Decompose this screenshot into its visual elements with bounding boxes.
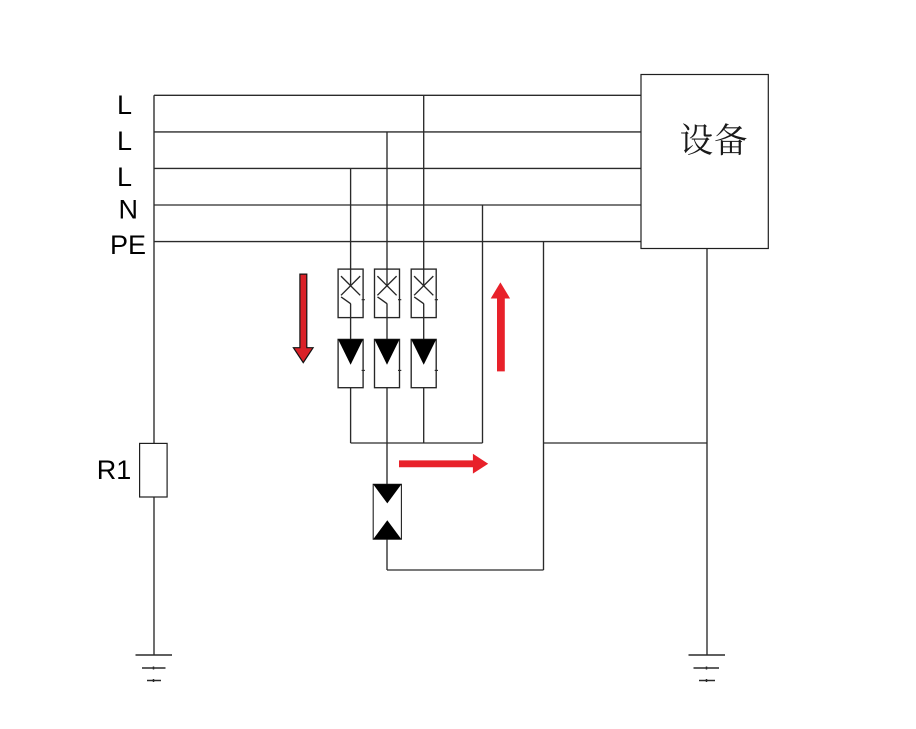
svg-text:N: N xyxy=(119,194,139,224)
svg-text:R1: R1 xyxy=(97,455,132,485)
svg-text:L: L xyxy=(117,126,132,156)
svg-text:L: L xyxy=(117,90,132,120)
svg-text:L: L xyxy=(117,162,132,192)
svg-text:PE: PE xyxy=(110,230,146,260)
